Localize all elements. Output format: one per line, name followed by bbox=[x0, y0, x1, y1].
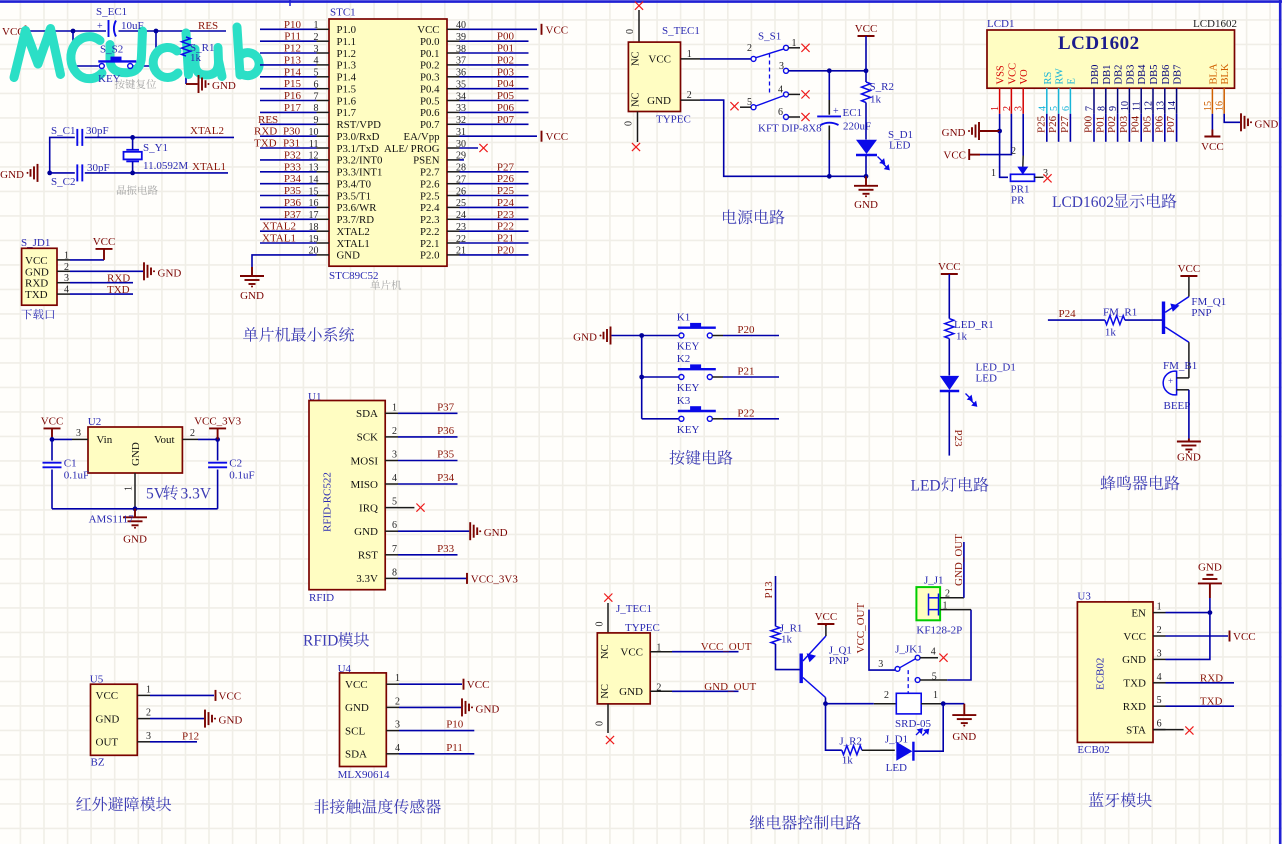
svg-text:6: 6 bbox=[778, 107, 783, 118]
wire S_EC1 to RES bbox=[119, 30, 227, 32]
svg-text:P16: P16 bbox=[284, 90, 302, 102]
svg-text:ECB02: ECB02 bbox=[1077, 744, 1109, 756]
svg-text:P15: P15 bbox=[284, 78, 302, 90]
pushbutton K3 KEY bbox=[678, 411, 716, 421]
svg-text:P00: P00 bbox=[1083, 115, 1095, 133]
svg-text:1: 1 bbox=[687, 49, 692, 60]
svg-text:4: 4 bbox=[1037, 106, 1048, 111]
svg-text:3: 3 bbox=[779, 61, 784, 72]
svg-text:P12: P12 bbox=[284, 43, 301, 55]
power flag VCC (backlight) bbox=[1204, 130, 1220, 137]
module U3 ECB02 body bbox=[1077, 602, 1153, 743]
wire LCD pin1 to gnd bbox=[999, 114, 1001, 131]
svg-text:GND: GND bbox=[123, 533, 147, 545]
wire EC1 top lead bbox=[828, 71, 830, 100]
svg-text:1k: 1k bbox=[870, 94, 882, 106]
svg-text:2: 2 bbox=[392, 426, 397, 437]
svg-text:VCC: VCC bbox=[41, 415, 64, 427]
svg-text:PNP: PNP bbox=[1191, 307, 1211, 319]
led S_D1 LED bbox=[856, 140, 877, 154]
svg-text:15: 15 bbox=[1203, 101, 1214, 111]
svg-text:P37: P37 bbox=[437, 401, 455, 413]
wire S_S1 pin3 to VCC rail bbox=[789, 70, 867, 72]
svg-text:DB4: DB4 bbox=[1137, 64, 1148, 85]
connector J_TEC1 TYPEC body bbox=[597, 633, 650, 704]
wire C2 bottom lead bbox=[217, 470, 219, 509]
wire K2 to P21 bbox=[712, 376, 723, 378]
svg-text:P0.0: P0.0 bbox=[420, 36, 440, 48]
svg-text:4: 4 bbox=[392, 473, 397, 484]
svg-text:KEY: KEY bbox=[98, 73, 121, 85]
svg-text:P0.7: P0.7 bbox=[420, 119, 440, 131]
svg-text:GND: GND bbox=[573, 332, 597, 344]
transistor J_Q1 PNP bbox=[801, 636, 826, 698]
svg-text:DB2: DB2 bbox=[1114, 65, 1125, 85]
capacitor S_EC1 10uF polarized bbox=[109, 20, 117, 37]
MCUclub logo bbox=[14, 27, 259, 79]
svg-text:P33: P33 bbox=[284, 161, 302, 173]
no-ERC cross J_TEC1 bottom bbox=[606, 736, 614, 744]
svg-text:P27: P27 bbox=[497, 161, 515, 173]
svg-text:GND_OUT: GND_OUT bbox=[704, 681, 756, 693]
wire STC1 pin 15 bbox=[260, 195, 317, 197]
ground GND (U2) bbox=[123, 509, 147, 526]
node EC1 bottom junction bbox=[827, 174, 832, 179]
svg-text:P02: P02 bbox=[497, 54, 514, 66]
svg-text:3: 3 bbox=[1157, 648, 1162, 659]
resistor S_R1 leads bbox=[185, 31, 187, 37]
wire STC1 pin 28 bbox=[460, 171, 529, 173]
svg-text:LCD1602: LCD1602 bbox=[1193, 18, 1237, 30]
wire LCD pin 9 bbox=[1117, 114, 1119, 142]
node C1 top junction bbox=[50, 437, 55, 442]
svg-text:OUT: OUT bbox=[96, 737, 119, 749]
svg-text:DB5: DB5 bbox=[1149, 65, 1160, 85]
svg-text:DB3: DB3 bbox=[1125, 65, 1136, 85]
led S_D1 arrows bbox=[878, 157, 890, 170]
svg-text:GND: GND bbox=[158, 267, 182, 279]
wire U3 EN to gnd node bbox=[1166, 612, 1210, 614]
svg-text:P26: P26 bbox=[1047, 115, 1059, 133]
svg-text:3: 3 bbox=[395, 720, 400, 731]
wire STC1 pin 9 bbox=[260, 123, 317, 125]
wire collector to rail (J_Q1) bbox=[825, 698, 827, 704]
wire S_JD1 pin2 to GND bbox=[70, 270, 143, 272]
svg-text:2: 2 bbox=[747, 43, 752, 54]
svg-text:P31: P31 bbox=[283, 138, 300, 150]
svg-text:3: 3 bbox=[392, 450, 397, 461]
regulator U2 AMS1117 body bbox=[88, 427, 182, 473]
svg-text:P26: P26 bbox=[497, 173, 515, 185]
svg-text:2: 2 bbox=[1157, 625, 1162, 636]
no-ERC cross S_S1 pin1 bbox=[801, 44, 809, 52]
power flag VCC (U2 in) bbox=[44, 428, 61, 439]
module U5 body bbox=[91, 684, 138, 755]
svg-text:P23: P23 bbox=[952, 430, 964, 448]
svg-text:K3: K3 bbox=[677, 395, 691, 407]
wire STC1 pin40 to VCC bbox=[460, 28, 538, 30]
svg-text:DB1: DB1 bbox=[1102, 65, 1113, 85]
svg-text:KEY: KEY bbox=[677, 382, 700, 394]
svg-text:DB7: DB7 bbox=[1173, 65, 1184, 85]
svg-text:8: 8 bbox=[1096, 106, 1107, 111]
svg-text:FM_R1: FM_R1 bbox=[1103, 307, 1137, 319]
wire STC1 pin 18 bbox=[260, 230, 317, 232]
svg-text:P17: P17 bbox=[284, 102, 302, 114]
svg-text:5: 5 bbox=[392, 497, 397, 508]
svg-text:P24: P24 bbox=[1059, 308, 1077, 320]
switch S_S1 link dashed bbox=[769, 54, 771, 96]
svg-text:1: 1 bbox=[656, 643, 661, 654]
switch S_S1 pole A common bbox=[751, 56, 756, 61]
svg-text:VCC: VCC bbox=[855, 23, 878, 35]
caption key-reset bbox=[115, 79, 156, 89]
wire LCD pin 8 bbox=[1105, 114, 1107, 142]
wire key branch K2 bbox=[642, 376, 679, 378]
svg-text:6: 6 bbox=[1157, 719, 1162, 730]
svg-text:P11: P11 bbox=[446, 742, 463, 754]
svg-text:VCC: VCC bbox=[1233, 631, 1256, 643]
wire relay to gnd bbox=[943, 703, 964, 705]
ground GND (buzzer) bbox=[1177, 439, 1201, 450]
svg-text:LED: LED bbox=[889, 140, 910, 152]
svg-text:2: 2 bbox=[64, 262, 69, 273]
connector S_TEC1 TYPEC body bbox=[628, 42, 680, 111]
svg-text:1k: 1k bbox=[190, 52, 202, 64]
svg-text:P3.2/INT0: P3.2/INT0 bbox=[337, 155, 383, 167]
pushbutton S_S2 KEY bbox=[98, 61, 136, 68]
svg-text:P21: P21 bbox=[737, 366, 754, 378]
wire key branch K3 bbox=[642, 418, 679, 420]
svg-text:BEEP: BEEP bbox=[1164, 400, 1191, 412]
svg-text:1k: 1k bbox=[1105, 327, 1117, 339]
node crystal gnd junction bbox=[47, 171, 52, 176]
svg-text:P1.5: P1.5 bbox=[337, 84, 357, 96]
svg-text:2: 2 bbox=[1011, 146, 1016, 157]
svg-text:P37: P37 bbox=[284, 209, 302, 221]
wire STC1 pin 5 bbox=[260, 76, 317, 78]
wire STC1 pin 8 bbox=[260, 111, 317, 113]
svg-text:P1.4: P1.4 bbox=[337, 72, 357, 84]
svg-text:P3.6/WR: P3.6/WR bbox=[337, 202, 378, 214]
wire P13 to J_R1 bbox=[775, 576, 777, 626]
pin 4 (S_S1) bbox=[784, 92, 789, 97]
svg-text:1k: 1k bbox=[781, 634, 793, 646]
caption key circuit bbox=[669, 450, 732, 465]
svg-text:STA: STA bbox=[1126, 724, 1146, 736]
svg-text:7: 7 bbox=[392, 544, 397, 555]
wire LED_R1 to LED_D1 bbox=[948, 339, 950, 376]
svg-text:P2.6: P2.6 bbox=[420, 179, 440, 191]
wire EC1 bottom lead bbox=[828, 126, 830, 141]
svg-text:3.3V: 3.3V bbox=[356, 573, 378, 585]
svg-text:KEY: KEY bbox=[677, 341, 700, 353]
caption MCU minimum system bbox=[243, 327, 354, 342]
svg-text:0: 0 bbox=[595, 721, 606, 726]
svg-text:1k: 1k bbox=[956, 331, 968, 343]
sheet border top bbox=[0, 0, 1282, 3]
svg-text:S_TEC1: S_TEC1 bbox=[662, 25, 700, 37]
svg-text:4: 4 bbox=[778, 84, 783, 95]
wire emitter to VCC (J_Q1) bbox=[825, 626, 827, 636]
svg-text:BLK: BLK bbox=[1220, 63, 1231, 84]
svg-text:P1.3: P1.3 bbox=[337, 60, 357, 72]
wire U1 GND bbox=[398, 530, 469, 532]
node EN/GND junction bbox=[1208, 610, 1213, 615]
svg-text:KF128-2P: KF128-2P bbox=[916, 625, 962, 637]
svg-text:GND: GND bbox=[476, 703, 500, 715]
power flag VCC_3V3 (U1) bbox=[466, 573, 468, 584]
svg-text:P13: P13 bbox=[284, 54, 302, 66]
no-ERC cross pin30 bbox=[479, 144, 487, 152]
svg-text:XTAL1: XTAL1 bbox=[262, 233, 296, 245]
svg-text:P23: P23 bbox=[497, 209, 515, 221]
svg-text:P01: P01 bbox=[1094, 116, 1106, 133]
svg-text:FM_B1: FM_B1 bbox=[1163, 360, 1197, 372]
svg-text:SCL: SCL bbox=[345, 725, 365, 737]
svg-text:P25: P25 bbox=[1035, 115, 1047, 133]
svg-text:VCC: VCC bbox=[620, 646, 643, 658]
svg-text:P1.0: P1.0 bbox=[337, 24, 357, 36]
module U4 MLX90614 body bbox=[340, 673, 387, 767]
svg-text:1: 1 bbox=[124, 486, 135, 491]
no-ERC cross S_S1 pin5 bbox=[730, 102, 738, 110]
svg-text:3: 3 bbox=[1014, 106, 1025, 111]
svg-text:GND: GND bbox=[240, 290, 264, 302]
svg-text:K1: K1 bbox=[677, 312, 690, 324]
caption relay control circuit bbox=[750, 815, 861, 830]
svg-text:0: 0 bbox=[625, 29, 636, 34]
node C2 top junction bbox=[215, 437, 220, 442]
wire STC1 pin 2 bbox=[260, 40, 317, 42]
wire U1 3.3V bbox=[398, 577, 467, 579]
diode J_D1 LED bbox=[896, 742, 912, 761]
svg-text:TXD: TXD bbox=[1123, 678, 1146, 690]
svg-text:P02: P02 bbox=[1106, 116, 1118, 133]
ground GND (reset) bbox=[186, 83, 198, 85]
wire gnd to caps bbox=[50, 137, 75, 173]
no-ERC cross S_S1 pin4 bbox=[801, 90, 809, 98]
svg-text:1: 1 bbox=[146, 684, 151, 695]
svg-text:STC89C52: STC89C52 bbox=[329, 270, 379, 282]
svg-text:9: 9 bbox=[1108, 106, 1119, 111]
svg-text:P14: P14 bbox=[284, 66, 302, 78]
svg-text:P03: P03 bbox=[1118, 115, 1130, 133]
wire LCD pin 7 bbox=[1093, 114, 1095, 142]
svg-text:S_S2: S_S2 bbox=[100, 44, 123, 56]
node S_C2/crystal junction bbox=[130, 171, 135, 176]
svg-text:SCK: SCK bbox=[357, 432, 378, 444]
caption power circuit bbox=[723, 210, 784, 225]
svg-text:4: 4 bbox=[395, 743, 400, 754]
node U2 gnd junction bbox=[133, 506, 138, 511]
wire keys gnd bus bbox=[612, 335, 680, 337]
relay coil SRD-05 bbox=[896, 693, 921, 714]
wire STC1 pin 16 bbox=[260, 206, 317, 208]
pushbutton K1 KEY bbox=[678, 328, 716, 338]
svg-text:RXD: RXD bbox=[25, 278, 48, 290]
wire STC1 pin 24 bbox=[460, 218, 529, 220]
switch J_JK1 common bbox=[895, 667, 900, 672]
svg-text:P10: P10 bbox=[446, 719, 464, 731]
node gnd rail end junction bbox=[864, 174, 869, 179]
capacitor C1 0.1uF bbox=[43, 463, 62, 468]
wire U5 pin2 to GND bbox=[150, 718, 204, 720]
svg-text:0.1uF: 0.1uF bbox=[229, 470, 254, 482]
no-ERC cross STA bbox=[1185, 726, 1193, 734]
caption MCU bbox=[370, 280, 401, 290]
wire rail down to J_R2 bbox=[826, 704, 842, 751]
svg-text:DB0: DB0 bbox=[1090, 65, 1101, 85]
wire K3 to P22 bbox=[712, 418, 723, 420]
svg-text:VCC: VCC bbox=[648, 54, 671, 66]
node reset rail junction 1 bbox=[71, 29, 76, 34]
power flag VCC (LED) bbox=[941, 273, 958, 275]
svg-text:P33: P33 bbox=[437, 543, 455, 555]
svg-text:+: + bbox=[833, 106, 839, 117]
wire FM_R1 to base bbox=[1125, 319, 1162, 321]
ground GND (power circuit) bbox=[854, 176, 878, 194]
svg-text:C2: C2 bbox=[229, 458, 242, 470]
svg-text:4: 4 bbox=[1157, 672, 1162, 683]
wire LCD pin 10 bbox=[1128, 114, 1130, 142]
wire STC1 pin 33 bbox=[460, 111, 529, 113]
relay arrows bbox=[916, 729, 929, 736]
power flag VCC (U4) bbox=[463, 679, 465, 690]
power flag VCC (reset rail) bbox=[25, 26, 27, 37]
svg-text:VCC_OUT: VCC_OUT bbox=[701, 641, 752, 653]
resistor FM_R1 1k bbox=[1105, 316, 1125, 325]
capacitor S_C1 30pF bbox=[77, 129, 82, 146]
svg-text:3: 3 bbox=[146, 731, 151, 742]
capacitor C2 0.1uF bbox=[208, 463, 227, 468]
wire STC1 pin 13 bbox=[260, 171, 317, 173]
svg-text:1: 1 bbox=[990, 106, 1001, 111]
wire J_D1 to rail right bbox=[914, 704, 943, 752]
resistor J_R1 1k bbox=[771, 626, 780, 644]
svg-text:J_TEC1: J_TEC1 bbox=[616, 603, 652, 615]
wire U1 pin 1 bbox=[398, 412, 458, 414]
pin 0 top (J_TEC1) bbox=[607, 603, 609, 633]
svg-text:P20: P20 bbox=[497, 244, 515, 256]
wire C2 top lead bbox=[217, 439, 219, 460]
pin 3 stub (PR1) bbox=[1035, 176, 1044, 178]
svg-text:VCC: VCC bbox=[1123, 631, 1146, 643]
wire VCC to resistor bbox=[865, 36, 867, 82]
wire U3 RXD bbox=[1166, 705, 1235, 707]
svg-text:VCC: VCC bbox=[25, 255, 48, 267]
svg-text:Vout: Vout bbox=[154, 434, 175, 446]
wire LCD pin1 to PR1 bbox=[1000, 131, 1008, 177]
wire STC1 pin 7 bbox=[260, 100, 317, 102]
wire STC1 pin 23 bbox=[460, 230, 529, 232]
svg-text:RFID: RFID bbox=[303, 633, 338, 650]
wire U1 IRQ stub bbox=[398, 507, 414, 509]
svg-text:VCC: VCC bbox=[417, 24, 439, 36]
pushbutton K2 KEY bbox=[678, 369, 716, 379]
svg-text:P11: P11 bbox=[284, 31, 301, 43]
sheet border right bbox=[1279, 0, 1282, 844]
resistor S_R2 1k bbox=[862, 82, 871, 103]
svg-text:P1.2: P1.2 bbox=[337, 48, 357, 60]
wire STC1 pin 35 bbox=[460, 88, 529, 90]
svg-text:VCC_3V3: VCC_3V3 bbox=[194, 415, 242, 427]
svg-text:+: + bbox=[97, 21, 103, 32]
wire bottom rail (U2) bbox=[52, 508, 218, 510]
svg-text:RFID-RC522: RFID-RC522 bbox=[322, 472, 334, 532]
caption bluetooth module bbox=[1089, 792, 1152, 807]
wire S_C2 to XTAL1 bbox=[85, 172, 228, 174]
power flag VCC (S_JD1) bbox=[96, 249, 113, 260]
svg-text:P34: P34 bbox=[284, 173, 302, 185]
svg-text:5V: 5V bbox=[146, 486, 166, 503]
svg-text:AMS1117: AMS1117 bbox=[89, 514, 135, 526]
wire STC1 pin 22 bbox=[460, 242, 529, 244]
pin 3 (S_S1) bbox=[784, 68, 789, 73]
svg-text:EC1: EC1 bbox=[843, 107, 863, 119]
svg-text:PNP: PNP bbox=[829, 655, 849, 667]
pin 2 stub (J_J1) bbox=[940, 597, 964, 599]
ground GND (STC1) bbox=[240, 267, 264, 284]
wire S_D1 to gnd rail bbox=[865, 156, 867, 176]
svg-text:TYPEC: TYPEC bbox=[656, 114, 691, 126]
svg-text:2: 2 bbox=[190, 428, 195, 439]
svg-text:P2.2: P2.2 bbox=[420, 226, 440, 238]
wire LCD pin 11 bbox=[1140, 114, 1142, 142]
svg-text:LCD1: LCD1 bbox=[987, 18, 1015, 30]
svg-text:DB6: DB6 bbox=[1161, 65, 1172, 85]
svg-text:LCD1602: LCD1602 bbox=[1058, 33, 1140, 54]
svg-text:Vin: Vin bbox=[96, 434, 112, 446]
wire LCD pin15 to VCC bbox=[1211, 114, 1213, 130]
no-ERC cross IRQ bbox=[416, 504, 424, 512]
svg-text:EA/Vpp: EA/Vpp bbox=[404, 131, 440, 143]
pin 2 stub (JK relay) bbox=[874, 703, 897, 705]
svg-text:3.3V: 3.3V bbox=[181, 486, 212, 503]
svg-text:SRD-05: SRD-05 bbox=[895, 718, 932, 730]
svg-text:6: 6 bbox=[392, 520, 397, 531]
wire K1 to P20 bbox=[712, 335, 723, 337]
wire U1 pin 2 bbox=[398, 436, 458, 438]
node key bus junction K1 bbox=[639, 333, 644, 338]
wire STC1 pin 3 bbox=[260, 52, 317, 54]
no-ERC cross S_S1 pin6 bbox=[801, 113, 809, 121]
svg-text:1: 1 bbox=[395, 673, 400, 684]
wire emitter to VCC bbox=[1188, 276, 1190, 297]
pin 5 (J_JK1) bbox=[915, 678, 920, 683]
connector S_JD1 body bbox=[22, 248, 57, 305]
svg-text:VCC: VCC bbox=[219, 690, 242, 702]
wire STC1 pin 1 bbox=[260, 28, 317, 30]
svg-text:RES: RES bbox=[198, 20, 218, 32]
wire collector to buzzer bbox=[1188, 342, 1190, 378]
node EC1 top junction bbox=[827, 68, 832, 73]
svg-text:XTAL1: XTAL1 bbox=[337, 238, 370, 250]
svg-text:VCC: VCC bbox=[1007, 63, 1018, 85]
caption IR obstacle module bbox=[76, 796, 171, 811]
svg-text:GND: GND bbox=[219, 715, 243, 727]
ground GND (relay) bbox=[952, 704, 976, 723]
svg-text:P35: P35 bbox=[437, 449, 455, 461]
svg-text:VCC: VCC bbox=[1201, 141, 1224, 153]
svg-text:VCC_OUT: VCC_OUT bbox=[855, 602, 867, 653]
svg-text:TXD: TXD bbox=[107, 284, 130, 296]
svg-text:PSEN: PSEN bbox=[413, 155, 440, 167]
wire KF128 pin1 to switch pin5 bbox=[947, 610, 971, 680]
svg-text:GND: GND bbox=[942, 127, 966, 139]
svg-text:P3.3/INT1: P3.3/INT1 bbox=[337, 167, 383, 179]
ground GND (S_JD1) bbox=[144, 262, 151, 280]
